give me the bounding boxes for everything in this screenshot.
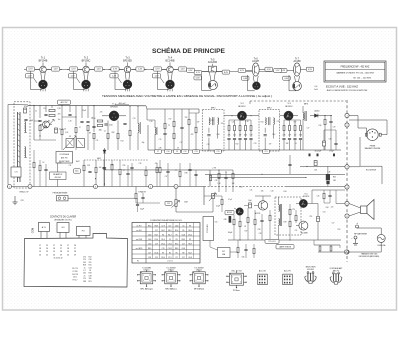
svg-text:AVEC LE CADRE FERRITE /TOUCHE: AVEC LE CADRE FERRITE /TOUCHE GO APPUYEE xyxy=(327,89,368,92)
svg-text:C100: C100 xyxy=(109,124,113,126)
left small box xyxy=(11,167,21,177)
svg-text:C16: C16 xyxy=(233,134,236,136)
RF transistor symbol left xyxy=(39,121,52,138)
svg-text:R5: R5 xyxy=(182,230,184,232)
svg-text:C29: C29 xyxy=(333,126,336,128)
svg-text:R4-7: R4-7 xyxy=(188,252,192,254)
svg-text:10n: 10n xyxy=(58,119,61,121)
output coupling to speaker xyxy=(312,190,345,240)
svg-text:C33: C33 xyxy=(111,164,114,166)
svg-text:220: 220 xyxy=(185,117,188,119)
svg-text:R2: R2 xyxy=(162,234,164,236)
svg-text:1,4V: 1,4V xyxy=(138,69,143,71)
svg-text:C18: C18 xyxy=(250,134,253,136)
svg-text:C6-8: C6-8 xyxy=(175,225,179,227)
svg-text:C74: C74 xyxy=(83,257,86,259)
top row interconnect wire xyxy=(26,69,194,71)
svg-text:19: 19 xyxy=(67,251,69,253)
svg-text:R8-9: R8-9 xyxy=(175,248,179,250)
svg-text:4,7K: 4,7K xyxy=(158,148,161,150)
label RE amplif 455KHz xyxy=(50,172,67,180)
svg-text:R38: R38 xyxy=(185,173,188,175)
svg-text:Tr.7: Tr.7 xyxy=(295,57,300,60)
svg-text:TENSIONS MESUREES AVEC VOLTMET: TENSIONS MESUREES AVEC VOLTMETRE A LAMPE… xyxy=(102,95,272,98)
mid-right decoupling caps xyxy=(315,115,338,152)
svg-text:17: 17 xyxy=(53,245,55,247)
svg-text:100μF: 100μF xyxy=(228,232,232,234)
svg-text:SCHÉMA DE PRINCIPE: SCHÉMA DE PRINCIPE xyxy=(152,47,225,55)
loudspeaker HP xyxy=(349,200,374,220)
svg-text:BC149: BC149 xyxy=(227,212,232,214)
narrow legend box right of table xyxy=(203,217,214,241)
fuse 0,5A xyxy=(349,228,386,252)
horizontal rail y170 xyxy=(105,169,211,171)
output transistor Tr.5 AC187K (dark can) xyxy=(296,193,312,208)
volume potentiometer 100K xyxy=(165,189,213,213)
svg-text:PRISE ANTENNE: PRISE ANTENNE xyxy=(53,192,69,195)
svg-text:C11: C11 xyxy=(96,140,99,142)
svg-text:2: 2 xyxy=(202,275,203,277)
svg-text:C10: C10 xyxy=(93,118,96,120)
left boundary wire xyxy=(7,105,9,185)
svg-text:C5: C5 xyxy=(169,239,171,241)
connector column with numbered nodes xyxy=(345,100,349,262)
svg-text:R14: R14 xyxy=(121,141,124,143)
supply rail segments xyxy=(28,104,146,107)
svg-text:L48: L48 xyxy=(328,172,331,174)
svg-text:R8-9: R8-9 xyxy=(148,248,152,250)
svg-text:TOUCHES: TOUCHES xyxy=(207,224,209,233)
svg-text:R9: R9 xyxy=(189,225,191,227)
svg-text:BC149B: BC149B xyxy=(166,59,175,62)
svg-text:R4-7: R4-7 xyxy=(161,230,165,232)
tone cap 2,2uF xyxy=(136,198,144,212)
svg-text:220: 220 xyxy=(331,207,334,209)
capacitor 4,7uF antenna xyxy=(24,108,27,113)
mid components near volume xyxy=(119,160,192,187)
svg-text:( ENGAGES OU VU ): ( ENGAGES OU VU ) xyxy=(54,218,73,221)
svg-text:26: 26 xyxy=(74,245,76,247)
svg-text:1,2V: 1,2V xyxy=(70,76,75,78)
ground symbol left xyxy=(13,196,24,205)
svg-text:R41: R41 xyxy=(240,186,243,188)
svg-text:R3,4: R3,4 xyxy=(161,257,164,259)
svg-text:C43: C43 xyxy=(271,190,274,192)
svg-text:17: 17 xyxy=(39,245,41,247)
svg-text:C9-11: C9-11 xyxy=(154,252,158,254)
svg-text:HP BATTERIE: HP BATTERIE xyxy=(354,232,368,235)
svg-text:C57: C57 xyxy=(332,223,335,225)
svg-text:R2: R2 xyxy=(189,239,191,241)
svg-text:C37: C37 xyxy=(165,176,168,178)
svg-text:0,7V: 0,7V xyxy=(113,69,118,71)
svg-text:SELECTEUR: SELECTEUR xyxy=(306,267,317,269)
wire to node 3 ecouteur xyxy=(300,160,345,172)
svg-text:ACC PO: ACC PO xyxy=(284,269,291,272)
components under Tr.2 xyxy=(227,119,252,150)
IF transformer MF.2 xyxy=(259,107,280,151)
svg-text:C76: C76 xyxy=(292,209,295,211)
svg-text:R4 C28: R4 C28 xyxy=(72,274,78,276)
svg-text:MF.2 B(Blanc): MF.2 B(Blanc) xyxy=(165,288,177,290)
transistor Tr.4 BC149B (top row stage 4) xyxy=(151,56,189,91)
svg-text:BF195D: BF195D xyxy=(123,59,132,62)
svg-text:R5: R5 xyxy=(176,252,178,254)
transistor Tr.1 BF194B (top row stage 1) xyxy=(24,56,62,91)
svg-text:RE.AMPLIF: RE.AMPLIF xyxy=(53,173,62,176)
svg-text:18: 18 xyxy=(39,248,41,250)
capacitor 47pF antenna xyxy=(24,118,27,120)
svg-text:C9-11: C9-11 xyxy=(188,234,192,236)
svg-text:C55: C55 xyxy=(215,221,218,223)
svg-text:AC126M: AC126M xyxy=(208,61,217,64)
svg-text:MF.1: MF.1 xyxy=(211,107,217,109)
svg-text:C6-8: C6-8 xyxy=(148,234,152,236)
svg-text:C7,9: C7,9 xyxy=(161,225,164,227)
svg-text:2: 2 xyxy=(174,275,175,277)
svg-text:5: 5 xyxy=(202,280,203,282)
battery 9V xyxy=(351,222,367,245)
resistor R34 10R dark stack xyxy=(326,166,337,186)
component list columns inside board xyxy=(72,257,92,283)
svg-text:AC128: AC128 xyxy=(255,212,260,215)
svg-text:C34: C34 xyxy=(89,267,92,269)
svg-text:C88: C88 xyxy=(83,281,86,283)
second rail +9V xyxy=(205,173,345,175)
driver stage resistors xyxy=(244,208,271,240)
svg-text:120: 120 xyxy=(294,134,297,136)
svg-text:R1-4: R1-4 xyxy=(175,230,179,232)
svg-text:0,7V: 0,7V xyxy=(155,69,160,71)
svg-text:C6 1n: C6 1n xyxy=(73,277,77,279)
ACC PO coil xyxy=(283,269,293,284)
svg-text:C19: C19 xyxy=(162,248,165,250)
svg-text:1K: 1K xyxy=(43,162,45,164)
svg-text:COMMUTATIONS ANTENNE DU SOL: COMMUTATIONS ANTENNE DU SOL xyxy=(150,219,182,222)
svg-text:220: 220 xyxy=(221,123,224,125)
svg-text:MAGNETOPHONE: MAGNETOPHONE xyxy=(365,147,381,150)
output transistor AC188K xyxy=(296,221,309,235)
svg-text:Tr.5: Tr.5 xyxy=(210,58,215,61)
audio lower cluster xyxy=(208,216,255,259)
svg-text:R8-9: R8-9 xyxy=(188,243,192,245)
svg-text:ECOUTEUR: ECOUTEUR xyxy=(366,170,377,172)
svg-text:C30: C30 xyxy=(329,138,332,140)
svg-text:68p: 68p xyxy=(142,142,145,144)
svg-text:P.1: P.1 xyxy=(137,261,139,263)
svg-text:R51: R51 xyxy=(310,216,313,218)
svg-text:TP1 0,5 R: TP1 0,5 R xyxy=(268,241,276,243)
svg-text:28: 28 xyxy=(60,251,62,253)
svg-text:en GRD: en GRD xyxy=(136,248,143,250)
svg-text:Tr.6: Tr.6 xyxy=(254,57,259,60)
svg-text:C15: C15 xyxy=(217,151,220,153)
prise antenne connector xyxy=(53,192,136,201)
svg-text:GO 150 ... 240 KHZ: GO 150 ... 240 KHZ xyxy=(353,78,372,80)
svg-text:1nF: 1nF xyxy=(269,144,272,146)
MF.1 can top view xyxy=(137,266,156,290)
svg-text:R2: R2 xyxy=(169,252,171,254)
svg-text:C15: C15 xyxy=(159,139,162,141)
output bias resistors xyxy=(289,204,297,240)
svg-text:C25: C25 xyxy=(277,121,280,123)
svg-text:1nF: 1nF xyxy=(197,122,200,124)
svg-text:19: 19 xyxy=(39,251,41,253)
svg-text:C45: C45 xyxy=(83,262,86,264)
svg-text:C14: C14 xyxy=(217,134,220,136)
svg-text:R3,4: R3,4 xyxy=(148,225,151,227)
svg-text:1,2V: 1,2V xyxy=(154,76,159,78)
svg-text:C31: C31 xyxy=(69,165,72,167)
svg-text:BF195C: BF195C xyxy=(285,106,293,108)
svg-text:470: 470 xyxy=(100,112,103,114)
svg-text:R8-9: R8-9 xyxy=(188,230,192,232)
svg-text:R4-7: R4-7 xyxy=(168,234,172,236)
svg-text:R7: R7 xyxy=(162,252,164,254)
svg-text:330: 330 xyxy=(89,278,92,280)
svg-text:EN ACC 9V: EN ACC 9V xyxy=(20,191,30,194)
push button ATL xyxy=(38,223,49,239)
svg-text:b: b xyxy=(287,114,289,118)
svg-text:2 3, 5 6: 2 3, 5 6 xyxy=(167,261,172,263)
svg-text:C19: C19 xyxy=(155,243,158,245)
svg-text:OSC. PO GO: OSC. PO GO xyxy=(231,270,242,272)
svg-text:Tr.5: Tr.5 xyxy=(304,193,307,196)
svg-text:C7: C7 xyxy=(157,151,159,153)
svg-text:1,2V: 1,2V xyxy=(112,76,117,78)
svg-text:47K: 47K xyxy=(228,134,231,136)
label couplage ant recepteur xyxy=(56,152,73,164)
svg-text:AC187K: AC187K xyxy=(303,195,310,198)
svg-text:C58: C58 xyxy=(258,229,261,231)
svg-text:C66: C66 xyxy=(242,257,245,259)
svg-text:C53: C53 xyxy=(323,211,326,213)
svg-text:ACC 9V: ACC 9V xyxy=(61,101,69,104)
svg-text:C7,9: C7,9 xyxy=(168,257,171,259)
push button PO xyxy=(77,226,91,238)
svg-text:R55: R55 xyxy=(338,229,341,231)
svg-text:C17: C17 xyxy=(168,225,171,227)
svg-text:R4-7: R4-7 xyxy=(155,234,159,236)
svg-text:C15: C15 xyxy=(155,257,158,259)
audio preamp bias components xyxy=(210,169,234,192)
preamp load resistors xyxy=(229,215,241,240)
svg-text:RECEPTEUR: RECEPTEUR xyxy=(59,161,70,163)
svg-text:C17: C17 xyxy=(148,252,151,254)
svg-text:C39: C39 xyxy=(215,180,218,182)
svg-text:R28: R28 xyxy=(83,265,86,267)
svg-text:C28: C28 xyxy=(21,200,24,202)
svg-text:25: 25 xyxy=(46,245,48,247)
svg-text:COM: COM xyxy=(33,228,35,233)
switching table commutations xyxy=(132,219,200,263)
svg-text:+ 9V: + 9V xyxy=(212,168,217,170)
svg-text:R49: R49 xyxy=(284,221,287,223)
svg-text:COUPLAGE: COUPLAGE xyxy=(59,153,70,156)
svg-text:A.T.L: A.T.L xyxy=(42,226,46,229)
svg-text:C41: C41 xyxy=(250,189,253,191)
IF transistor Tr.2 BF195C (dark can) xyxy=(224,103,259,120)
svg-text:C59: C59 xyxy=(167,203,170,205)
svg-text:R18: R18 xyxy=(89,273,92,275)
svg-text:A4410: A4410 xyxy=(315,110,320,113)
svg-text:1,4V: 1,4V xyxy=(96,69,101,71)
MF.3 coil and detector diode AA119 xyxy=(303,104,333,150)
on-off switch node xyxy=(314,240,348,254)
svg-text:5: 5 xyxy=(240,282,241,284)
extra mid strings xyxy=(111,160,198,187)
tone control xyxy=(135,187,160,204)
AGC dashed line xyxy=(76,160,148,187)
coupling cap 10uF xyxy=(244,200,252,208)
svg-text:C6-8: C6-8 xyxy=(188,257,192,259)
svg-text:C17: C17 xyxy=(180,142,183,144)
ecouteur wiring xyxy=(349,137,382,184)
svg-text:R34: R34 xyxy=(333,176,336,178)
svg-text:470μF: 470μF xyxy=(329,151,333,153)
svg-text:20: 20 xyxy=(53,254,55,256)
svg-text:23: 23 xyxy=(46,251,48,253)
push button GO xyxy=(57,223,69,239)
svg-text:R47: R47 xyxy=(245,230,248,232)
svg-text:C6-8: C6-8 xyxy=(148,239,152,241)
audio bottom rail xyxy=(228,239,341,241)
svg-text:C21: C21 xyxy=(232,121,235,123)
svg-text:MF.2: MF.2 xyxy=(267,107,273,109)
value boxes on ground bus xyxy=(155,150,162,154)
svg-text:C49: C49 xyxy=(259,233,262,235)
svg-text:1,2V: 1,2V xyxy=(27,76,32,78)
svg-text:R19: R19 xyxy=(211,120,214,122)
svg-text:C19: C19 xyxy=(207,144,210,146)
svg-text:ACC GO: ACC GO xyxy=(259,269,267,272)
svg-text:C5: C5 xyxy=(182,225,184,227)
svg-text:10μF: 10μF xyxy=(248,200,252,202)
svg-text:17: 17 xyxy=(67,245,69,247)
svg-text:5: 5 xyxy=(149,280,150,282)
svg-text:31 41 32 42: 31 41 32 42 xyxy=(54,258,63,260)
IF transformer MF.1 xyxy=(203,107,225,151)
svg-text:R30: R30 xyxy=(319,125,322,127)
svg-text:R8-9: R8-9 xyxy=(155,225,159,227)
svg-text:C18: C18 xyxy=(148,257,151,259)
svg-text:R12: R12 xyxy=(89,257,92,259)
svg-text:R24: R24 xyxy=(261,121,264,123)
vertical x290 drop xyxy=(289,155,291,174)
svg-text:2,2K: 2,2K xyxy=(87,165,90,167)
svg-text:C23: C23 xyxy=(254,143,257,145)
svg-text:2: 2 xyxy=(240,277,241,279)
svg-text:18: 18 xyxy=(67,248,69,250)
selecteur coil pot core xyxy=(305,267,316,284)
driver transformer xyxy=(279,197,282,240)
svg-text:27: 27 xyxy=(74,248,76,250)
svg-text:C9-11: C9-11 xyxy=(161,243,165,245)
svg-text:CONTACTS DU CLAVIER: CONTACTS DU CLAVIER xyxy=(50,215,77,218)
bias label boxes xyxy=(265,239,279,243)
audio horizontal rail xyxy=(210,177,306,179)
svg-text:C13: C13 xyxy=(133,118,136,120)
svg-text:C38: C38 xyxy=(89,275,92,277)
svg-text:C6-8: C6-8 xyxy=(148,243,152,245)
svg-text:ECOUT A VUE : 152 KHZ: ECOUT A VUE : 152 KHZ xyxy=(326,85,358,89)
svg-text:19: 19 xyxy=(53,251,55,253)
svg-text:R9: R9 xyxy=(89,133,91,135)
svg-text:C27: C27 xyxy=(307,127,310,129)
svg-text:18: 18 xyxy=(53,248,55,250)
svg-text:4,7K: 4,7K xyxy=(282,134,285,136)
svg-text:R3: R3 xyxy=(48,121,50,123)
svg-text:28: 28 xyxy=(74,251,76,253)
svg-text:C9-11: C9-11 xyxy=(168,248,172,250)
svg-text:C9-11: C9-11 xyxy=(168,243,172,245)
ACC GO coil xyxy=(258,269,268,284)
mixer transistor Tr.1 BF194B (dark can) xyxy=(102,103,126,121)
extra voltage boxes on top row xyxy=(187,68,195,72)
couplage ant PO coil pot core xyxy=(329,267,343,284)
svg-text:C12: C12 xyxy=(184,151,187,153)
svg-text:47μF: 47μF xyxy=(228,199,232,201)
transistor Tr.3 BF195D (top row stage 3) xyxy=(109,56,147,91)
svg-text:C13: C13 xyxy=(195,151,198,153)
svg-text:270: 270 xyxy=(83,259,86,261)
scattered component value labels xyxy=(35,110,341,234)
svg-text:R9: R9 xyxy=(176,239,178,241)
svg-text:R32: R32 xyxy=(59,163,62,165)
transistor Tr.2 BF195C (top row stage 2) xyxy=(67,56,105,91)
cadre ferrite antenna (dashed enclosure) xyxy=(14,102,30,188)
svg-text:1n: 1n xyxy=(84,267,86,269)
lower bus with junction nodes xyxy=(7,185,285,206)
left resistors mid xyxy=(33,160,48,187)
svg-text:R8-9: R8-9 xyxy=(168,230,172,232)
svg-text:4,7μF: 4,7μF xyxy=(24,106,28,108)
svg-text:33K: 33K xyxy=(299,134,302,136)
svg-text:C35: C35 xyxy=(139,163,142,165)
svg-text:170: 170 xyxy=(83,278,86,280)
svg-text:R22: R22 xyxy=(236,144,239,146)
svg-text:C7: C7 xyxy=(79,127,81,129)
svg-text:C30: C30 xyxy=(89,259,92,261)
oscillator cluster xyxy=(147,109,199,150)
svg-text:TRANSISTORS VUS: TRANSISTORS VUS xyxy=(361,252,378,255)
svg-text:0,6: 0,6 xyxy=(315,86,318,88)
svg-text:R8-9: R8-9 xyxy=(182,239,186,241)
svg-text:470: 470 xyxy=(155,163,158,165)
svg-text:R1-4: R1-4 xyxy=(155,239,159,241)
svg-text:FUS.0,5A: FUS.0,5A xyxy=(378,244,387,247)
svg-text:DE DESSOUS (BROCHES): DE DESSOUS (BROCHES) xyxy=(359,256,380,258)
svg-text:R1: R1 xyxy=(43,108,45,110)
svg-text:ANT. FB: ANT. FB xyxy=(61,156,68,159)
svg-text:C17: C17 xyxy=(182,243,185,245)
svg-text:455 KHZ: 455 KHZ xyxy=(54,177,60,179)
svg-text:INT.: INT. xyxy=(222,251,226,253)
driver transistor AC128 xyxy=(254,196,271,215)
svg-text:2n: 2n xyxy=(84,275,86,277)
svg-text:C9: C9 xyxy=(176,151,178,153)
transistor Tr.6 AC187 (top row stage 6) xyxy=(238,57,272,90)
circuit board outline keyboard xyxy=(24,234,128,288)
svg-text:C17: C17 xyxy=(155,230,158,232)
oscillator coil top view xyxy=(226,270,246,291)
svg-text:4,7μF+C3: 4,7μF+C3 xyxy=(59,129,66,131)
svg-text:C6-8: C6-8 xyxy=(182,248,186,250)
svg-text:0,7V: 0,7V xyxy=(71,69,76,71)
preamp transistor Tr.4 BC149 (dark can) xyxy=(225,208,243,215)
svg-text:C14: C14 xyxy=(272,134,275,136)
variable capacitor CV1 CV2 xyxy=(63,136,85,150)
